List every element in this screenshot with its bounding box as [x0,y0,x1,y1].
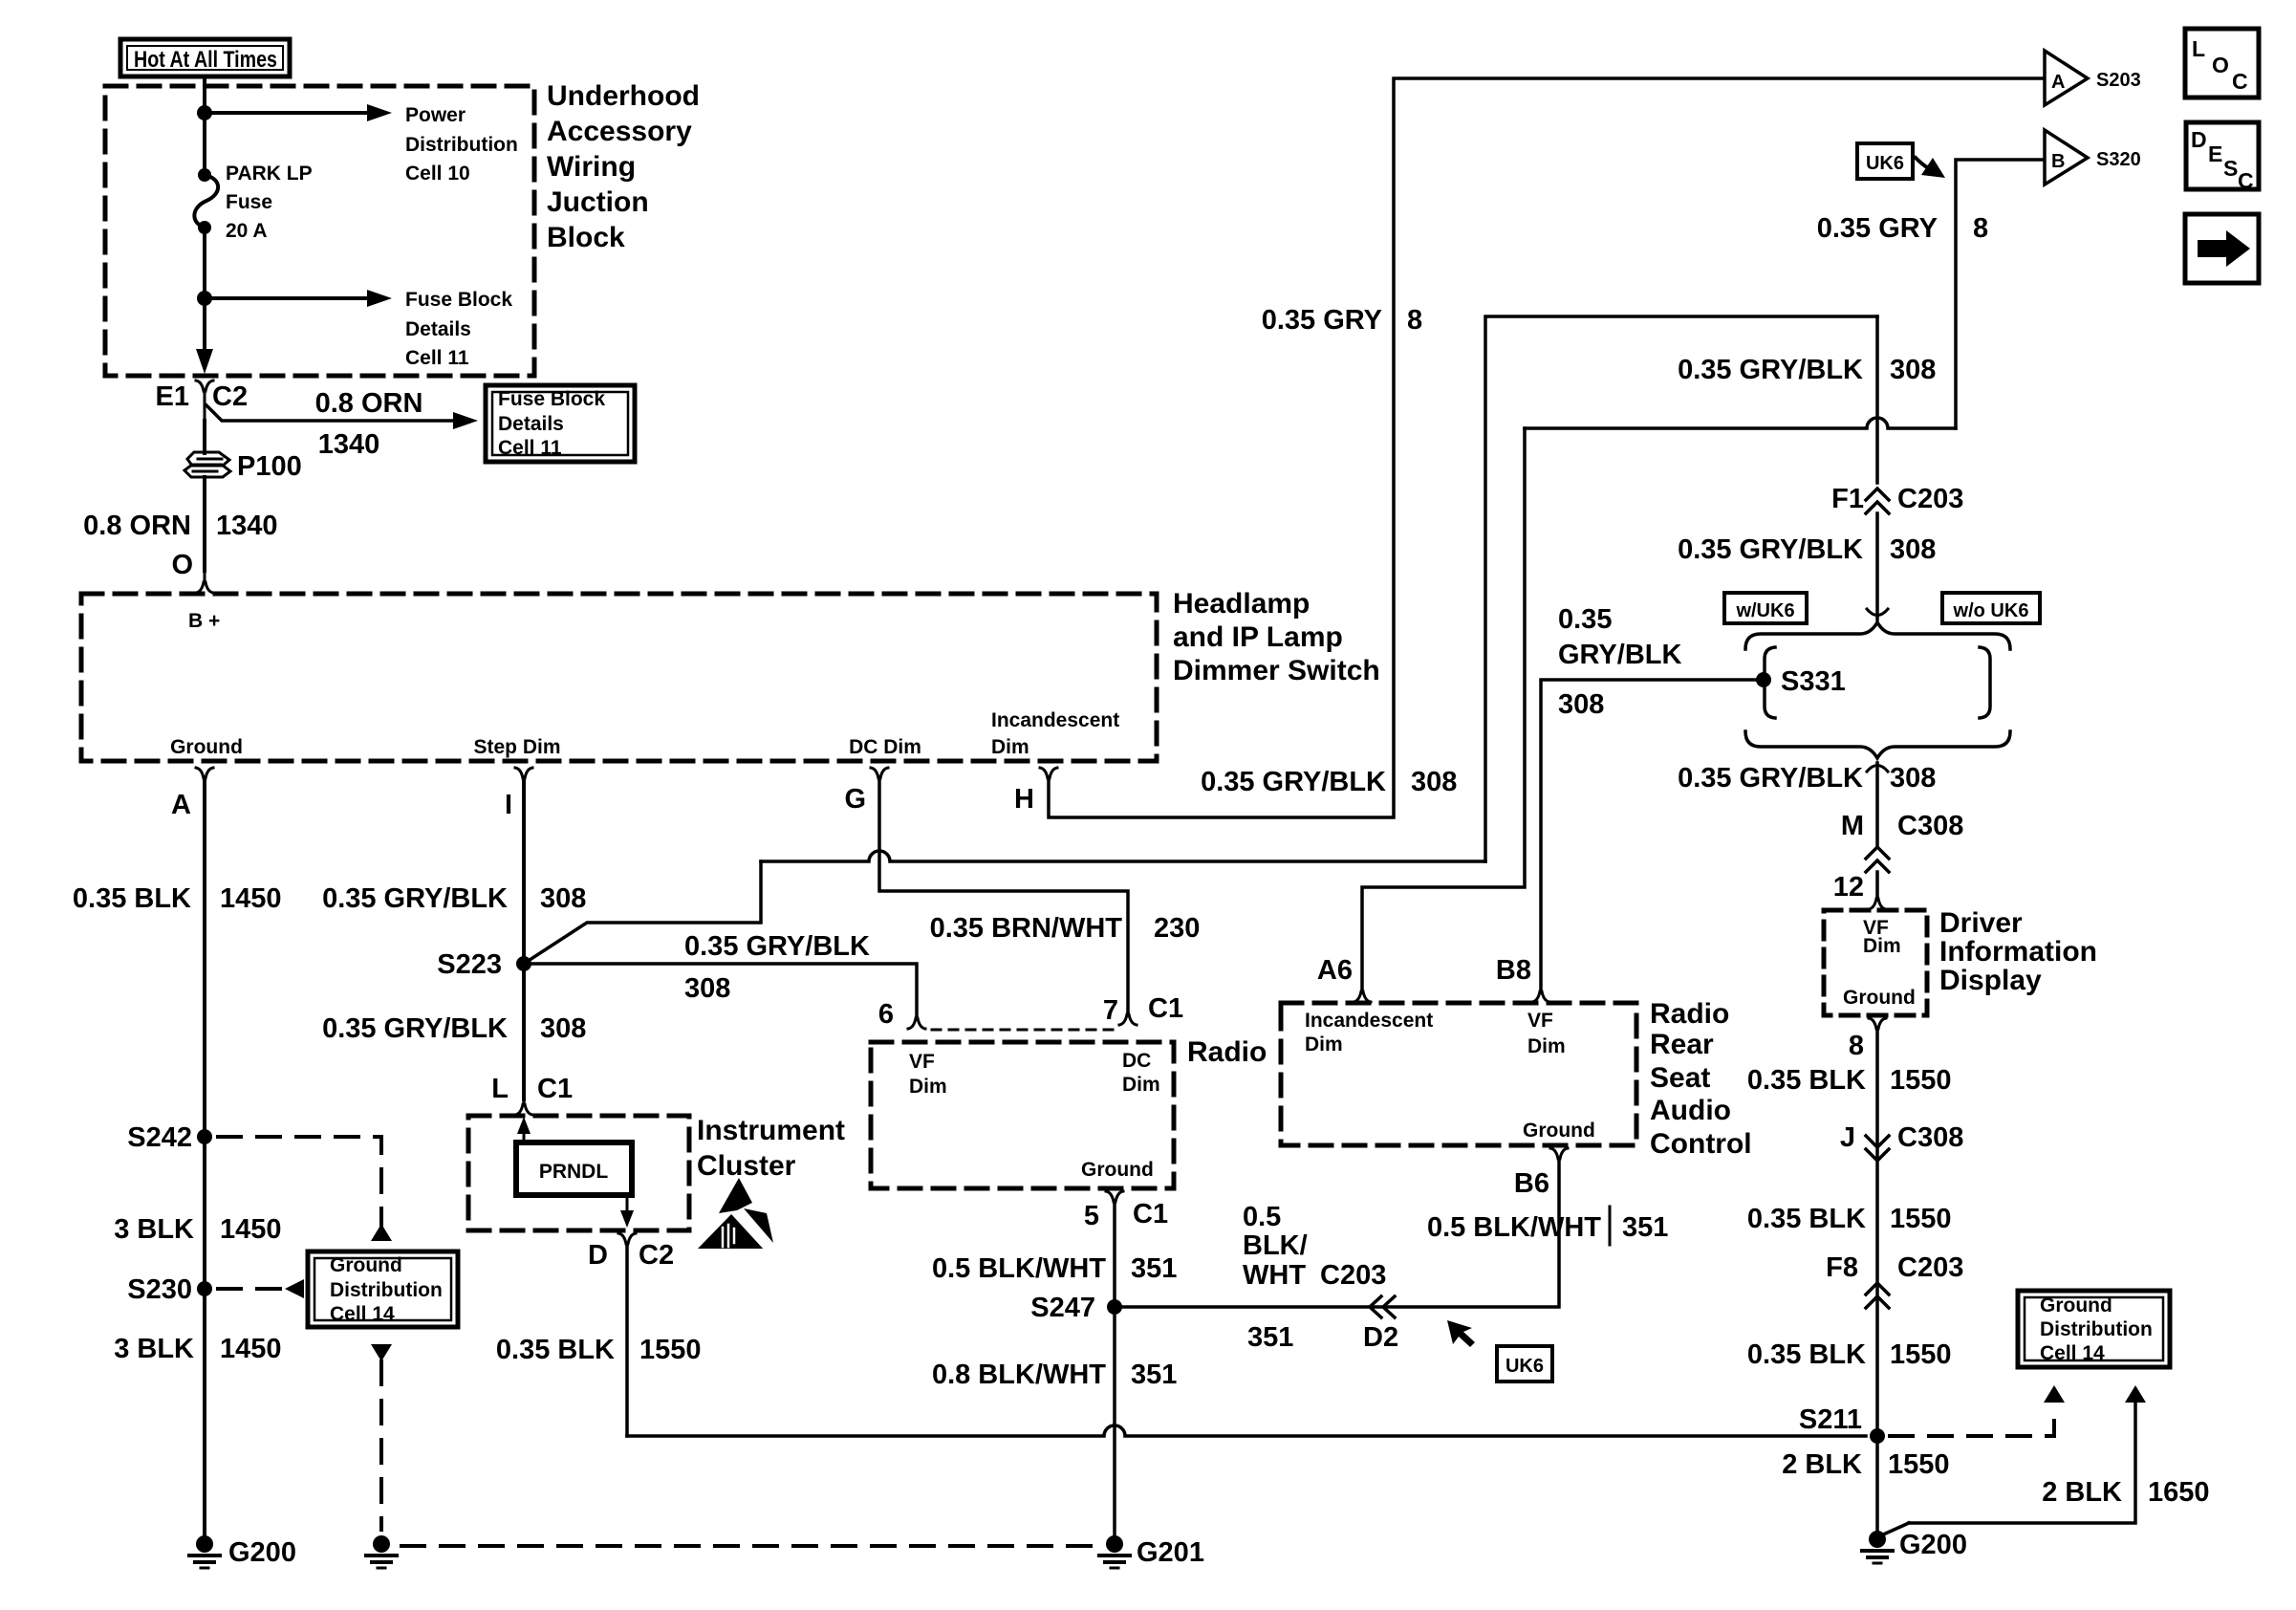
svg-text:Incandescent: Incandescent [991,709,1119,731]
svg-text:0.8 ORN: 0.8 ORN [315,388,423,419]
fuse PARK LP 20 A [194,168,218,234]
svg-text:1550: 1550 [1890,1339,1952,1370]
label: VF Dim (DID) [1863,917,1901,957]
svg-text:Details: Details [498,413,564,435]
label: D C2 [588,1240,674,1271]
svg-text:C203: C203 [1897,1252,1963,1283]
label: S203 [2096,70,2141,91]
svg-text:Information: Information [1939,936,2097,968]
svg-text:C: C [2238,168,2254,193]
svg-text:Instrument: Instrument [697,1115,845,1146]
svg-text:1550: 1550 [1888,1449,1950,1480]
label: G201 [1137,1537,1204,1568]
wire: radio ground to S247 [1113,1202,1116,1307]
label: Incandescent Dim pin name [991,709,1119,758]
splice pack S331 upper brace [1745,622,2010,649]
svg-text:DC: DC [1122,1050,1151,1072]
svg-text:Step Dim: Step Dim [473,736,560,758]
label: J C308 [1840,1122,1963,1153]
label: 5 C1 [1084,1199,1168,1231]
connector pin O at dimmer switch B+ [196,571,213,593]
svg-text:2 BLK: 2 BLK [1782,1449,1862,1480]
reference box: Fuse Block Details Cell 11 [486,385,635,462]
node S230 [197,1281,212,1296]
connector pin 6 [908,1018,925,1029]
svg-text:1550: 1550 [639,1335,702,1365]
label: 0.35 GRY/BLK 308 (below S223) [322,1013,586,1044]
dashed link S242 to ground distribution [218,1137,392,1241]
svg-text:Details: Details [405,318,471,340]
cursor arrow from UK6 (lower) [1447,1320,1475,1347]
connector pin A [196,768,213,778]
svg-text:C203: C203 [1897,484,1963,514]
label: 3 BLK 1450 (upper) [114,1214,281,1245]
label: 0.35 GRY/BLK 308 (H run) [1201,767,1457,797]
inline connector F8 C203 [1866,1283,1889,1308]
wire: arrow to Fuse Block Details [205,290,392,307]
wire: S331 to M C308 [1867,763,1888,845]
wire: DC dim pin G to radio pin 7 (0.35 BRN/WHT 230) [879,778,1128,1015]
svg-text:G200: G200 [1899,1530,1967,1560]
dashed link S230 to ground distribution [218,1279,304,1298]
svg-text:308: 308 [1890,763,1936,794]
svg-text:B6: B6 [1514,1168,1549,1199]
connector pin B6 [1550,1148,1568,1159]
svg-text:O: O [2212,53,2229,77]
inline connector F1 C203 [1866,489,1889,513]
svg-text:BLK/: BLK/ [1243,1230,1308,1261]
label: 2 BLK 1650 [2042,1477,2209,1508]
svg-text:DC Dim: DC Dim [849,736,921,758]
svg-text:Hot At All Times: Hot At All Times [134,47,277,73]
radio pin rail (fine dash) [932,1029,1118,1032]
label: 351 D2 [1247,1322,1398,1353]
svg-text:230: 230 [1154,913,1200,944]
svg-text:O: O [171,550,193,580]
inline connector J C308 [1866,1136,1889,1161]
label: 12 [1833,872,1864,903]
label: Ground pin name [170,736,243,758]
instrument cluster (dashed) [468,1116,689,1230]
wire: 0.35 BLK 1450 ground from pin A to G200 [203,778,206,1544]
svg-text:1450: 1450 [220,883,282,914]
svg-text:G: G [844,784,866,815]
svg-text:1550: 1550 [1890,1065,1952,1096]
dashed link ground distribution to G200 [371,1344,392,1530]
label: Ground (rear) [1523,1120,1595,1142]
wire: riser into F1 C203 [1875,316,1879,483]
wire: cluster ground run to S211 [627,1425,1866,1436]
svg-text:Cell 11: Cell 11 [405,347,469,369]
svg-text:0.35 GRY/BLK: 0.35 GRY/BLK [684,931,870,962]
svg-text:351: 351 [1131,1253,1177,1284]
svg-text:0.5 BLK/WHT: 0.5 BLK/WHT [932,1253,1106,1284]
node S211 [1870,1428,1885,1444]
svg-text:Fuse Block: Fuse Block [405,289,512,311]
svg-text:S203: S203 [2096,70,2141,91]
svg-text:351: 351 [1247,1322,1293,1353]
svg-text:Ground: Ground [1523,1120,1595,1142]
label: 2 BLK 1550 [1782,1449,1949,1480]
label: Power Distribution Cell 10 [405,104,518,185]
label: S331 [1781,666,1846,697]
svg-text:S242: S242 [127,1122,192,1153]
svg-text:C1: C1 [537,1074,573,1104]
label: I [505,790,512,820]
PRNDL display box [516,1142,632,1195]
svg-text:C2: C2 [212,381,248,412]
svg-text:8: 8 [1973,213,1988,244]
grommet P100 [184,452,230,477]
connector pin A6 [1354,991,1371,1002]
label: 0.35 GRY 8 (left riser) [1262,305,1422,336]
svg-text:308: 308 [1890,355,1936,385]
svg-text:Dim: Dim [1863,935,1901,957]
svg-text:Distribution: Distribution [405,134,518,156]
label: Headlamp and IP Lamp Dimmer Switch [1173,588,1380,686]
connector pin H [1040,768,1057,778]
option box UK6 (lower) [1497,1346,1552,1382]
label: G200 [228,1537,296,1568]
svg-text:Ground: Ground [1081,1159,1154,1181]
wire: S223 riser to DID feed [524,316,1877,964]
svg-text:D2: D2 [1363,1322,1398,1353]
svg-text:Dimmer Switch: Dimmer Switch [1173,655,1380,686]
svg-text:0.5 BLK/WHT: 0.5 BLK/WHT [1427,1212,1601,1243]
svg-text:L: L [491,1074,509,1104]
svg-text:Cluster: Cluster [697,1150,796,1182]
node S247 [1107,1299,1122,1315]
connector pin B8 [1532,991,1549,1002]
node: tap to fuse block details [197,291,212,306]
svg-text:B: B [2051,151,2065,172]
wire: down from L to instrument cluster [522,964,526,1099]
svg-text:Fuse Block: Fuse Block [498,388,605,410]
ground G201 [1099,1535,1130,1568]
svg-text:Ground: Ground [2040,1295,2112,1316]
svg-text:Control: Control [1650,1128,1752,1160]
svg-text:P100: P100 [237,451,302,482]
svg-text:E1: E1 [156,381,189,412]
underhood accessory wiring juction block (dashed) [105,86,534,376]
svg-text:S211: S211 [1799,1404,1862,1435]
label: 0.35 BLK 1450 [73,883,282,914]
svg-text:0.35 BRN/WHT: 0.35 BRN/WHT [930,913,1123,944]
svg-text:Accessory: Accessory [547,116,692,147]
svg-text:VF: VF [909,1051,935,1073]
legend box DESC [2186,122,2259,193]
legend box arrow [2185,214,2259,283]
svg-text:D: D [588,1240,608,1271]
svg-text:20 A: 20 A [226,220,268,242]
svg-text:S223: S223 [437,949,502,980]
label: 0.35 BLK 1550 (lower) [1747,1339,1952,1370]
reference box: Ground Distribution Cell 14 (left) [308,1251,458,1327]
svg-text:8: 8 [1407,305,1422,336]
label: M C308 [1841,811,1964,841]
svg-text:308: 308 [1558,689,1604,720]
svg-text:308: 308 [684,973,730,1004]
svg-text:Wiring: Wiring [547,151,636,183]
label: S211 [1799,1404,1862,1435]
wire into DID [1869,872,1886,909]
node S242 [197,1129,212,1144]
svg-text:0.35 BLK: 0.35 BLK [1747,1339,1866,1370]
svg-text:D: D [2191,127,2207,152]
connector pin 8 [1869,1018,1886,1029]
svg-text:351: 351 [1131,1360,1177,1390]
option box UK6 [1857,143,1913,179]
label: VF Dim (rear) [1527,1010,1566,1057]
label: B + [188,610,220,632]
label: A6 [1317,955,1353,986]
label: 0.8 BLK/WHT 351 [932,1360,1177,1390]
svg-text:F1: F1 [1831,484,1864,514]
svg-text:PARK LP: PARK LP [226,163,313,185]
label: 0.35 BLK 1550 (upper) [1747,1065,1952,1096]
svg-text:Distribution: Distribution [2040,1318,2153,1340]
wire: fuse output [203,228,206,350]
connector pin L / C1 [515,1099,532,1115]
svg-text:1340: 1340 [216,511,278,541]
label: G [844,784,866,815]
label: L C1 [491,1074,573,1104]
wire: step dim pin I down to S223 [522,778,526,964]
label: 0.5 BLK/WHT 351 (radio) [932,1253,1177,1284]
label: B6 [1514,1168,1549,1199]
wire: 0.8 ORN 1340 to dimmer switch [203,477,206,571]
off-page triangle A S203 [2045,51,2088,105]
svg-text:B8: B8 [1496,955,1531,986]
svg-text:Radio: Radio [1187,1036,1267,1068]
wire: arrow to Power Distribution [205,104,392,121]
driver information display (dashed) [1824,910,1927,1015]
svg-text:Dim: Dim [1527,1035,1566,1057]
svg-text:C203: C203 [1320,1260,1386,1291]
link ground distribution to G200 (2 BLK 1650) [1881,1385,2146,1535]
reference box: Ground Distribution Cell 14 (right) [2018,1291,2170,1367]
splice pack S331 left bus bar [1765,647,1775,718]
svg-text:1450: 1450 [220,1334,282,1364]
svg-text:G200: G200 [228,1537,296,1568]
label: 8 [1849,1031,1864,1061]
svg-text:S320: S320 [2096,149,2141,170]
node: tap to power distribution [197,105,212,120]
wire: PRNDL to pin D [620,1195,634,1228]
label: F1 C203 [1831,484,1963,514]
headlamp and IP lamp dimmer switch (dashed) [81,594,1157,761]
svg-text:12: 12 [1833,872,1864,903]
wire: S331 to radio rear seat B8 (0.35 GRY/BLK 308) [1541,680,1764,992]
svg-text:0.8 BLK/WHT: 0.8 BLK/WHT [932,1360,1106,1390]
ground G200 (left) [189,1535,220,1568]
svg-text:3 BLK: 3 BLK [114,1334,194,1364]
off-page triangle B S320 [2045,130,2088,185]
label: DC Dim (radio) [1122,1050,1160,1096]
radio (dashed) [871,1042,1174,1188]
svg-text:C1: C1 [1148,993,1183,1024]
svg-text:0.35 GRY/BLK: 0.35 GRY/BLK [1678,355,1863,385]
svg-text:H: H [1014,784,1034,815]
arrow: feed exits junction block [196,349,213,374]
svg-text:VF: VF [1527,1010,1553,1032]
label: 0.8 ORN 1340 [83,511,277,541]
svg-text:Incandescent: Incandescent [1305,1010,1433,1032]
wire: battery feed into junction block [203,76,206,175]
svg-text:Underhood: Underhood [547,80,700,112]
svg-text:Dim: Dim [1305,1033,1343,1055]
label: Fuse Block Details Cell 11 [405,289,512,369]
wire: DID ground 0.35 BLK 1550 [1875,1029,1879,1539]
wire: incandescent dim pin H to triangle A (0.35 GRY 8) [1049,78,2042,817]
option box w/UK6 [1724,593,1807,623]
label: Step Dim pin name [473,736,560,758]
ground G200 (right) [1862,1531,1893,1563]
label: P100 [237,451,302,482]
connector pin 5 / C1 [1106,1191,1123,1202]
svg-text:Cell 14: Cell 14 [2040,1342,2105,1364]
label: 0.35 GRY/BLK 308 (3-line) [1558,604,1681,720]
svg-text:0.35: 0.35 [1558,604,1612,635]
svg-text:A: A [2051,72,2065,93]
connector pin I [515,768,532,778]
label: VF Dim (radio) [909,1051,947,1098]
svg-text:and IP Lamp: and IP Lamp [1173,621,1343,653]
label: 0.5 BLK/ WHT (3-line) [1243,1202,1308,1291]
svg-text:Driver: Driver [1939,907,2023,939]
label: 0.35 BLK 1550 (cluster ground) [496,1335,702,1365]
power label box: Hot At All Times [120,39,290,76]
wire: 0.8 ORN 1340 branch to fuse block details [206,405,478,429]
label: 7 C1 [1103,993,1183,1026]
svg-text:0.35 BLK: 0.35 BLK [496,1335,615,1365]
svg-text:Ground: Ground [170,736,243,758]
label: 0.35 GRY/BLK 308 (branch) [684,931,870,1004]
svg-text:Rear: Rear [1650,1029,1714,1060]
svg-text:UK6: UK6 [1505,1356,1544,1377]
svg-text:308: 308 [540,883,586,914]
label: 0.35 GRY/BLK 308 [1678,355,1936,385]
inline connector C203 D2 [1370,1296,1395,1317]
connector pin D / C2 [618,1233,636,1436]
label: 0.8 ORN 1340 [315,388,423,460]
svg-text:7: 7 [1103,995,1118,1026]
label: DC Dim pin name [849,736,921,758]
ground symbol on distribution stub [366,1535,397,1568]
svg-text:0.35 GRY: 0.35 GRY [1817,213,1938,244]
svg-text:M: M [1841,811,1864,841]
label: B8 [1496,955,1531,986]
label: Radio [1187,1036,1267,1068]
wire: triangle B to radio rear seat A6 (0.35 GRY 8) [1362,160,2042,992]
svg-text:C2: C2 [639,1240,674,1271]
label: 3 BLK 1450 (lower) [114,1334,281,1364]
label: Radio Rear Seat Audio Control [1650,998,1752,1160]
label: Driver Information Display [1939,907,2097,996]
label: 6 [878,999,894,1030]
svg-text:1550: 1550 [1890,1204,1952,1234]
svg-text:0.35 BLK: 0.35 BLK [1747,1204,1866,1234]
label: C203 [1320,1260,1386,1291]
svg-text:UK6: UK6 [1866,153,1904,174]
label: G200 (right) [1899,1530,1967,1560]
label: Underhood Accessory Wiring Juction Block [547,80,700,253]
svg-text:0.35 GRY/BLK: 0.35 GRY/BLK [1678,763,1863,794]
svg-text:6: 6 [878,999,894,1030]
svg-text:0.35 GRY/BLK: 0.35 GRY/BLK [322,1013,508,1044]
svg-text:B +: B + [188,610,220,632]
svg-text:Power: Power [405,104,466,126]
svg-text:Seat: Seat [1650,1062,1710,1094]
label: Ground (radio) [1081,1159,1154,1181]
svg-text:1340: 1340 [318,429,380,460]
label: 0.35 BRN/WHT 230 [930,913,1201,944]
svg-text:J: J [1840,1122,1855,1153]
svg-text:308: 308 [1411,767,1457,797]
wire: F1 to S331 splice pack [1867,513,1888,620]
label: 0.35 GRY/BLK 308 [1678,534,1936,565]
label: 0.35 GRY/BLK 308 [1678,763,1936,794]
svg-text:C: C [2232,69,2248,94]
svg-text:w/UK6: w/UK6 [1735,600,1794,621]
svg-text:Cell 10: Cell 10 [405,163,470,185]
svg-text:5: 5 [1084,1201,1099,1231]
label: terminal O [171,550,193,580]
svg-text:0.35 GRY/BLK: 0.35 GRY/BLK [1201,767,1386,797]
splice pack S331 right bus bar [1980,647,1990,718]
svg-text:WHT: WHT [1243,1260,1306,1291]
label: Ground (DID) [1843,987,1916,1009]
inline connector M C308 pin 12 [1866,847,1889,872]
label: S230 [127,1274,192,1305]
esd sensitive symbol [698,1178,773,1252]
label: S223 [437,949,502,980]
splice pack S331 lower brace [1745,731,2010,758]
dashed link to G201 [401,1544,1101,1548]
svg-text:S331: S331 [1781,666,1846,697]
option box w/o UK6 [1942,593,2040,623]
svg-text:E: E [2208,141,2222,166]
label: Instrument Cluster [697,1115,845,1182]
radio rear seat audio control (dashed) [1281,1003,1636,1145]
svg-text:Ground: Ground [1843,987,1916,1009]
node S223 [516,956,531,971]
label: Incandescent Dim [1305,1010,1433,1055]
svg-text:S230: S230 [127,1274,192,1305]
svg-text:C308: C308 [1897,811,1963,841]
svg-text:A: A [171,790,191,820]
svg-text:8: 8 [1849,1031,1864,1061]
label: F8 C203 [1826,1252,1963,1283]
svg-text:0.8 ORN: 0.8 ORN [83,511,191,541]
label: 0.35 GRY/BLK 308 (above S223) [322,883,586,914]
wire: S247 to radio rear seat B6 [1115,1159,1559,1307]
svg-text:308: 308 [540,1013,586,1044]
svg-text:Radio: Radio [1650,998,1729,1030]
cursor arrow from UK6 [1916,158,1945,178]
svg-text:0.35 BLK: 0.35 BLK [73,883,191,914]
svg-text:351: 351 [1622,1212,1668,1243]
svg-text:Dim: Dim [991,736,1029,758]
svg-text:w/o UK6: w/o UK6 [1953,600,2029,621]
svg-text:308: 308 [1890,534,1936,565]
svg-text:C308: C308 [1897,1122,1963,1153]
connector pin E1 / C2 [196,381,213,421]
dashed link S211 to ground distribution (right) [1890,1385,2065,1436]
svg-text:0.35 BLK: 0.35 BLK [1747,1065,1866,1096]
label: E1 C2 [156,381,249,412]
svg-text:S: S [2223,156,2238,181]
